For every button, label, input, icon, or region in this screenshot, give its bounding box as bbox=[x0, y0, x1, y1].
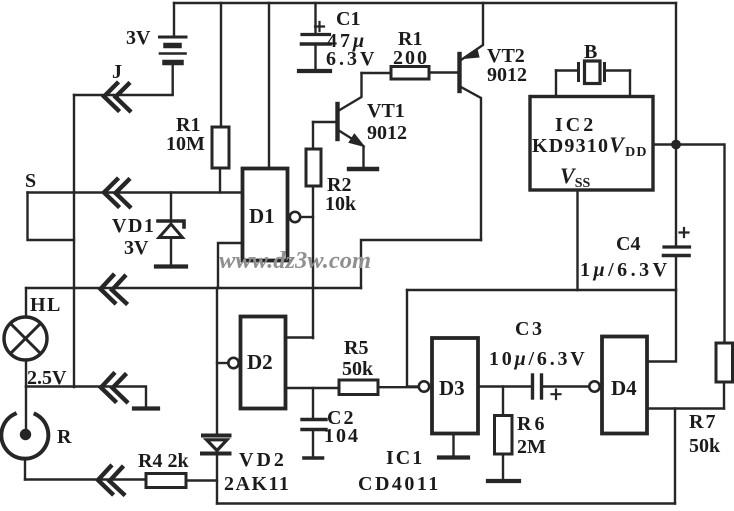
svg-text:2AK11: 2AK11 bbox=[224, 473, 290, 495]
svg-text:10k: 10k bbox=[325, 193, 357, 215]
wire VT2 collector feedback bbox=[361, 240, 481, 288]
wire D4 output drop to bottom rail bbox=[674, 409, 676, 504]
svg-text:B: B bbox=[584, 41, 597, 63]
buzzer B bbox=[556, 61, 630, 97]
lamp HL bbox=[4, 288, 47, 387]
svg-text:6.3V: 6.3V bbox=[326, 48, 377, 70]
svg-text:VD1: VD1 bbox=[112, 215, 155, 237]
svg-text:1μ/6.3V: 1μ/6.3V bbox=[580, 259, 671, 281]
svg-text:R7: R7 bbox=[689, 411, 717, 433]
svg-text:200: 200 bbox=[393, 47, 429, 69]
wire row5 bbox=[25, 478, 146, 480]
svg-text:R: R bbox=[57, 426, 72, 448]
svg-text:3V: 3V bbox=[124, 237, 149, 259]
zener diode VD1 bbox=[156, 193, 186, 267]
svg-text:J: J bbox=[112, 61, 122, 83]
battery 3V bbox=[160, 37, 187, 63]
ground bar row4 bbox=[134, 406, 158, 410]
resistor R2 bbox=[306, 122, 321, 186]
svg-text:HL: HL bbox=[30, 294, 62, 316]
contact arrows row2 bbox=[104, 180, 130, 207]
gate D1 bbox=[243, 3, 314, 261]
svg-text:50k: 50k bbox=[342, 358, 374, 380]
svg-text:C4: C4 bbox=[616, 233, 640, 255]
switch S loop bbox=[28, 193, 75, 241]
svg-text:D2: D2 bbox=[247, 350, 273, 374]
svg-text:C3: C3 bbox=[515, 318, 544, 340]
wire row2 S to D1 bbox=[28, 191, 243, 193]
capacitor C3 bbox=[478, 375, 589, 399]
resistor R4 bbox=[146, 474, 217, 488]
transistor VT2 bbox=[460, 3, 484, 240]
wire row3 bbox=[26, 287, 361, 289]
wire left rail bbox=[73, 95, 75, 387]
gate D2 bbox=[217, 317, 286, 409]
svg-text:IC2: IC2 bbox=[555, 114, 596, 136]
wire rail290 drop to D3 input bbox=[406, 290, 408, 387]
svg-text:2.5V: 2.5V bbox=[27, 367, 67, 389]
svg-text:D3: D3 bbox=[439, 376, 465, 400]
wire D2 upper right pin bbox=[286, 336, 313, 338]
svg-text:3V: 3V bbox=[126, 27, 151, 49]
svg-text:10μ/6.3V: 10μ/6.3V bbox=[489, 348, 588, 370]
diode VD2 bbox=[202, 436, 230, 504]
wire bottom rail bbox=[217, 502, 675, 504]
svg-text:D1: D1 bbox=[249, 204, 275, 228]
resistor R1 200 bbox=[362, 67, 459, 80]
capacitor C4 bbox=[664, 228, 690, 290]
svg-text:C1: C1 bbox=[336, 8, 360, 30]
svg-text:R5: R5 bbox=[344, 337, 368, 359]
svg-text:S: S bbox=[25, 170, 36, 192]
svg-text:IC1: IC1 bbox=[386, 447, 424, 469]
jack R bbox=[1, 387, 48, 480]
wire R7 top branch bbox=[676, 145, 725, 344]
wire D2 output row bbox=[286, 387, 339, 389]
gate D3 bbox=[407, 338, 478, 458]
wire row4 to ground bbox=[26, 387, 146, 408]
wire vertical x217 bbox=[216, 288, 218, 433]
resistor R6 bbox=[488, 387, 519, 482]
IC2 KD9310 bbox=[530, 97, 653, 191]
svg-text:VD2: VD2 bbox=[239, 449, 287, 471]
wire D1 lower input bbox=[218, 243, 242, 288]
capacitor C1 bbox=[299, 3, 330, 71]
contact arrows row4 bbox=[101, 374, 127, 402]
svg-text:9012: 9012 bbox=[487, 64, 527, 86]
resistor R1 10M bbox=[212, 3, 229, 193]
wire rail290 bbox=[407, 289, 676, 291]
wire battery bottom lead bbox=[74, 65, 173, 95]
wire IC2 Vss lead bbox=[576, 190, 578, 290]
svg-text:104: 104 bbox=[324, 425, 360, 447]
svg-text:R6: R6 bbox=[517, 413, 547, 435]
svg-text:50k: 50k bbox=[689, 435, 721, 457]
wire node vertical x313 bbox=[312, 186, 314, 338]
contact arrows row3 bbox=[101, 276, 127, 304]
wire right vertical top bbox=[675, 3, 677, 245]
transistor VT1 bbox=[313, 73, 377, 169]
svg-text:www.dz3w.com: www.dz3w.com bbox=[219, 247, 371, 274]
wire D4 output bbox=[648, 407, 724, 409]
svg-text:9012: 9012 bbox=[367, 122, 407, 144]
wire battery top lead bbox=[173, 3, 175, 36]
svg-text:D4: D4 bbox=[611, 376, 637, 400]
wire top +3V rail bbox=[174, 2, 676, 4]
wire C4 to D4 upper pin bbox=[648, 290, 676, 362]
wire Vdd pin bbox=[653, 143, 676, 145]
gate D4 bbox=[589, 337, 647, 434]
resistor R5 bbox=[339, 380, 419, 395]
svg-text:2M: 2M bbox=[517, 436, 546, 458]
capacitor C2 bbox=[302, 388, 326, 458]
svg-text:R4 2k: R4 2k bbox=[138, 450, 189, 472]
node Vdd junction bbox=[672, 140, 681, 149]
svg-text:10M: 10M bbox=[166, 133, 205, 155]
svg-text:CD4011: CD4011 bbox=[358, 473, 441, 495]
resistor R7 bbox=[716, 343, 733, 409]
contact arrows row5 bbox=[98, 467, 124, 495]
svg-text:VT1: VT1 bbox=[367, 100, 405, 122]
relay contact J bbox=[104, 84, 130, 111]
